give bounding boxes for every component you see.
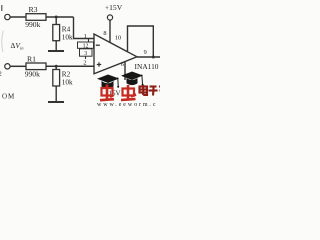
- watermark faint arc (left edge): [2, 31, 4, 53]
- resistor R3: [26, 14, 46, 21]
- watermark text dianzi (CJK drawn): [140, 85, 161, 96]
- wire node A down to R4: [55, 17, 57, 25]
- svg-text:6: 6: [121, 61, 124, 68]
- svg-text:R2: R2: [62, 71, 71, 79]
- ground (bottom): [48, 101, 64, 103]
- pin 6 wire: [124, 61, 126, 80]
- watermark graduation cap right: [121, 72, 144, 86]
- svg-text:10k: 10k: [62, 34, 73, 42]
- svg-text:R1: R1: [27, 55, 36, 64]
- wire supply to pin 8: [109, 20, 111, 42]
- svg-text:R3: R3: [28, 5, 37, 14]
- svg-text:2: 2: [0, 71, 2, 78]
- input terminal T2: [5, 64, 10, 69]
- svg-text:www.eeworm.c: www.eeworm.c: [97, 102, 157, 108]
- wire R1 to op-amp pin2: [46, 65, 94, 67]
- wire R4 to ground: [55, 41, 57, 51]
- op-amp U1 INA110 triangle: [94, 34, 137, 74]
- svg-text:2: 2: [83, 59, 86, 66]
- resistor R4: [53, 25, 60, 41]
- pin 10 sense feedback wire: [128, 26, 154, 57]
- inverting input minus: [96, 44, 100, 46]
- background: [0, 0, 160, 110]
- wire R2 to ground: [55, 86, 57, 102]
- wire node B down to R2: [55, 66, 57, 69]
- resistor R2: [53, 70, 60, 87]
- watermark red bug char 1: [100, 85, 114, 101]
- svg-text:990k: 990k: [25, 20, 40, 29]
- svg-text:8: 8: [103, 30, 106, 37]
- svg-text:9: 9: [144, 49, 147, 56]
- gain pin box 3: [80, 49, 93, 56]
- svg-text:10k: 10k: [62, 79, 73, 87]
- node A junction: [55, 16, 58, 19]
- noninverting input plus: [97, 64, 101, 66]
- ground (top): [48, 50, 64, 52]
- wire T2 to R1: [10, 65, 26, 67]
- node B junction: [55, 65, 58, 68]
- wire stub below box 3: [85, 56, 87, 59]
- svg-text:10: 10: [115, 35, 121, 42]
- svg-text:1: 1: [84, 33, 87, 40]
- terminal label 1 (cut at edge): [1, 5, 3, 11]
- supply terminal: [107, 15, 112, 20]
- wire R3 to corner: [46, 16, 74, 18]
- wire corner to op-amp pin1: [74, 17, 95, 39]
- wire stub to gain box: [88, 39, 90, 43]
- input terminal T1: [5, 14, 10, 19]
- svg-text:INA110: INA110: [135, 62, 159, 71]
- output wire: [137, 56, 160, 58]
- resistor R1: [26, 63, 46, 70]
- output junction: [152, 56, 155, 59]
- svg-text:3: 3: [84, 51, 87, 57]
- svg-text:R4: R4: [62, 26, 71, 34]
- svg-text:OM: OM: [2, 93, 15, 101]
- svg-text:990k: 990k: [25, 70, 40, 79]
- gain pin box 12: [78, 42, 94, 48]
- wire T1 to R3: [10, 16, 26, 18]
- watermark red bug char 2: [121, 85, 136, 100]
- watermark graduation cap left: [97, 75, 119, 89]
- svg-text:+15V: +15V: [105, 3, 123, 12]
